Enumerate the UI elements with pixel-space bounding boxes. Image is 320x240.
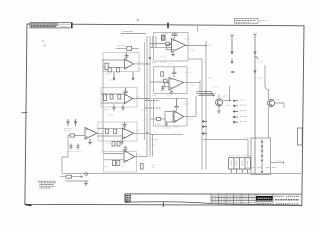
supply arrow TP1 (231, 36, 234, 55)
junction dot U5 out (205, 45, 207, 47)
wire: Q1 emitter (218, 106, 220, 111)
transistor Q1 (216, 99, 223, 106)
wire hop on TP2 net (255, 57, 258, 60)
misc label specks row2 (104, 34, 263, 167)
module box U6 (B2 stage) (154, 67, 188, 94)
label under bus A4 (152, 165, 156, 168)
title strip cell text (212, 196, 255, 203)
ground G8 under U7 (165, 122, 168, 126)
wire: U6 output (184, 81, 201, 83)
wire: U2 input lower (101, 102, 124, 104)
supply arrow down A1b (132, 72, 134, 80)
junction dot bus A3 (146, 132, 148, 134)
label C11 C12 (68, 151, 81, 153)
small mark top border x137 (137, 20, 139, 21)
wire: mid vertical x152.7 (152, 134, 154, 156)
sheet border frame (25, 24, 304, 206)
wire: H net y139 (202, 138, 248, 140)
junction dots Q1 bundle (211, 93, 213, 95)
wire: U6 output drop (200, 81, 216, 94)
label TP1 (230, 33, 235, 35)
component block U5 square (167, 45, 172, 50)
wire: vertical net V2 (201, 59, 203, 170)
connector labels above J1 (229, 155, 253, 157)
op-amp U1 (125, 59, 134, 69)
resistor R3 (110, 95, 113, 100)
op-amp U5 (172, 39, 186, 53)
ground G6 under U5 (171, 52, 174, 57)
wire: long vertical net V1 (205, 41, 207, 169)
capacitor C2 feedback U2 (124, 88, 128, 95)
capacitor C6 input network (74, 119, 77, 126)
ground G9 under Q1 (217, 111, 221, 113)
labels V4 (247, 166, 276, 168)
op-amp U4 (124, 150, 135, 162)
stamp box top-right (235, 18, 269, 23)
notes text block bottom-left (38, 181, 56, 188)
op-amp U2 (124, 94, 133, 104)
wire: U7 output (184, 116, 197, 118)
centerline tick left edge (22, 112, 28, 114)
wire: bus to U6 input (150, 81, 169, 83)
title strip left end block (125, 194, 130, 202)
label Q1 (223, 95, 229, 97)
wire: V2 jog (188, 58, 202, 60)
label H net (244, 137, 251, 139)
resistor R15 vertical on rail (105, 63, 108, 69)
resistor R9 (70, 134, 75, 137)
wire: bottom left branch 2 (65, 180, 89, 182)
component block U7 square (165, 112, 173, 123)
wire: Q1 collector (218, 94, 220, 99)
op-amp U3 (123, 128, 134, 139)
wire: left input rail (102, 59, 104, 152)
wire: Q2 base hook (265, 86, 269, 100)
wire: left rail to U0 (62, 136, 68, 174)
misc label specks row1 (100, 39, 282, 161)
wire: TB1 to right (271, 161, 284, 164)
wire: Q2 output (275, 103, 285, 108)
label input network (64, 129, 72, 131)
wire: U4 input upper (104, 153, 125, 155)
wire: U0 input (68, 135, 85, 137)
capacitor C9 feedback U7 (175, 99, 179, 111)
label TP2 (253, 32, 258, 34)
wire: bus to U5 input (150, 44, 172, 48)
wire: U0 output (97, 132, 103, 134)
net arrows into V2 (202, 120, 207, 134)
junction dot Q1 stub (229, 100, 231, 102)
wire: U5 output (186, 45, 207, 47)
wire: drop to connector (247, 139, 249, 157)
capacitor C4 feedback U4 (124, 146, 128, 150)
vertical bus line 2 (149, 36, 151, 157)
stage box U4 (A4) (104, 152, 137, 173)
resistor R13 (157, 118, 161, 121)
ground G2 under U2 (121, 105, 125, 111)
module box U5 (B1 stage) (154, 33, 189, 62)
corner registration blob bottom-left (26, 205, 32, 206)
vertical bus line 0 (144, 42, 146, 140)
net V4 arrow column (261, 139, 264, 173)
capacitor C10 on U5 box (162, 35, 166, 40)
label +15V top rail (123, 31, 133, 33)
op-amp U6 (169, 78, 184, 91)
stage box U2 (A2) (101, 88, 137, 108)
wire: Q1 collector stub (229, 86, 231, 101)
resistor R8 below U4 (117, 161, 120, 166)
junction dot U1 out (146, 63, 148, 65)
ground G4 under U0 (88, 139, 92, 145)
wire: U2 output to bus (133, 98, 150, 100)
resistor R7 below U4 (113, 161, 116, 166)
wire: ground rail bottom (62, 172, 301, 174)
wire: U3 output to bus (134, 132, 151, 134)
resistor R1 (108, 68, 111, 72)
title right section (273, 194, 299, 205)
wire: U7 output rise2 (195, 96, 197, 117)
resistor R12 (164, 79, 168, 82)
resistor R14 (66, 175, 72, 178)
resistor R2 (117, 68, 120, 72)
wire: U2 input upper (101, 93, 124, 95)
ground G5 (84, 181, 88, 186)
capacitor C7 feedback U5 (172, 33, 178, 39)
component lower-left U6 (161, 85, 164, 91)
junction dot bus A2 (146, 98, 148, 100)
dashed stub U7 b (145, 107, 161, 109)
supply arrow TP2 with long net (254, 35, 257, 175)
wire: bus to U7 input (150, 118, 165, 120)
module box U7 (B3 stage) (154, 99, 188, 127)
resistor R22 between A3 A4 (117, 142, 120, 147)
registration speck upper-left (42, 41, 46, 46)
dashed stub U7 a (145, 99, 160, 101)
wire: U1 output to bus (134, 63, 151, 65)
resistor R6 (114, 129, 117, 133)
wire: U4 output to bus (135, 156, 148, 158)
connector arrows J2 (left column) (233, 100, 238, 123)
arrowhead TP2a (254, 51, 256, 54)
wire: bundle into Q1 (196, 92, 214, 96)
wire: bottom left branch (60, 176, 82, 178)
wire: U1 input lower (103, 66, 125, 68)
op-amp U7 (174, 111, 184, 123)
resistor R20 upper-left U6 (161, 72, 164, 76)
wire: border stub top (197, 26, 199, 32)
arrowhead TP2 (254, 70, 256, 73)
terminal box TB1 (251, 138, 271, 175)
left arrow mark x232 y72 (231, 71, 235, 73)
centerline tick bottom edge (162, 202, 164, 208)
labels J2 (240, 100, 247, 121)
ground G7 under U6 (170, 90, 173, 94)
resistor R23 under A4 output (140, 164, 143, 170)
capacitor C3 feedback U3 (123, 122, 127, 128)
component block U6 square (165, 83, 170, 87)
resistor R10 top (116, 46, 140, 51)
resistor R5 (106, 129, 109, 133)
connector pin marks J1 (231, 161, 248, 166)
revision box on right border (297, 128, 302, 145)
wire: U3 input lower (97, 135, 123, 137)
wire: U1 input upper (103, 59, 125, 61)
wire: Q1 output to J2 (223, 100, 232, 102)
transistor Q2 (268, 100, 275, 107)
note box top-left (30, 23, 72, 28)
title strip outline (125, 194, 302, 205)
wire: box bottom line (150, 133, 183, 135)
resistor R21 between A3 A4 (112, 142, 115, 147)
stage box U3 (A3) (98, 122, 137, 141)
wire: bus stubs to B1 box (153, 36, 156, 47)
wire: short net V3 (264, 65, 266, 86)
wire: top supply rail (121, 33, 146, 35)
centerline tick top edge (167, 23, 169, 29)
supply arrow down A1a (113, 72, 115, 80)
capacitor C5 input network (67, 119, 70, 126)
logo block (256, 196, 273, 203)
label Q2 (273, 99, 279, 101)
capacitor C8 feedback U6 (172, 67, 176, 78)
wire: U3 input upper (97, 128, 123, 130)
op-amp U0 input stage (85, 128, 97, 140)
title strip cell grid (211, 194, 256, 205)
stage box U1 (A1) (103, 53, 139, 72)
ground G1 under U2 (112, 105, 116, 111)
wire: U4 input lower (104, 159, 125, 161)
arrow stub below TP1 (231, 58, 233, 64)
resistor R4 (118, 95, 121, 100)
connector circle P1 (85, 173, 88, 176)
wire: Q2 emitter drop (268, 107, 270, 139)
capacitor C11 near A4 (70, 144, 73, 150)
vertical bus line 1 (146, 36, 148, 157)
capacitor C1 feedback U1 (125, 53, 129, 60)
junction blob bus near A1 (149, 57, 151, 59)
ground G3 under U3 (120, 140, 124, 145)
capacitor C12 near A4 (77, 144, 80, 150)
resistor R11 (166, 42, 170, 45)
resistor R16 vertical on rail (104, 94, 107, 101)
connector J1 (229, 158, 251, 174)
